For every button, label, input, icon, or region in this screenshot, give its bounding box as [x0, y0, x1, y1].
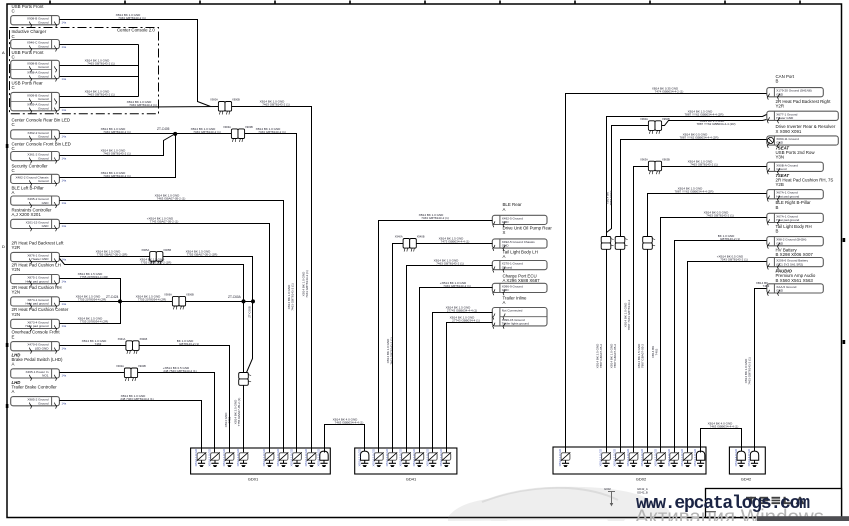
svg-text:Y2R: Y2R [776, 104, 785, 109]
svg-text:NO1: NO1 [42, 374, 49, 378]
svg-text:C: C [12, 168, 15, 173]
svg-text:(5C1 5Y2 5A1 5R2): (5C1 5Y2 5A1 5R2) [776, 262, 803, 266]
wire U20 charge port to GD41 [420, 288, 493, 449]
svg-text:XB14 4.0 GD: XB14 4.0 GD [734, 448, 738, 467]
svg-text:C: C [12, 9, 15, 14]
connector X932 inline [116, 364, 146, 381]
svg-text:C: C [12, 85, 15, 90]
svg-text:XB14 1.0 GD: XB14 1.0 GD [613, 448, 617, 467]
component U11 2R Heat Pad Cushion LH X875 [12, 262, 61, 272]
svg-text:Center Console Front Bin LED: Center Console Front Bin LED [12, 141, 71, 146]
svg-text:X905A: X905A [141, 248, 149, 252]
svg-text:14a: 14a [62, 402, 67, 406]
svg-text:X903A: X903A [223, 125, 231, 129]
svg-text:7463 GBT8143-2 (1): 7463 GBT8143-2 (1) [421, 216, 449, 220]
wire U7 security controller up to ZT-C405 [60, 134, 176, 178]
svg-text:14a: 14a [62, 135, 67, 139]
ground terminal GD02-2 [599, 448, 611, 467]
svg-text:7463 GBT8143-2 (1): 7463 GBT8143-2 (1) [258, 130, 286, 134]
svg-text:A: A [503, 254, 506, 259]
svg-text:XB14 1.0 GD: XB14 1.0 GD [262, 448, 266, 467]
svg-text:GND: GND [502, 244, 510, 248]
ground terminal GD41-5 [412, 448, 424, 467]
wire U5 CC rear bin LED to junction ZT-C405 [60, 133, 233, 135]
svg-text:USB Ports Rear: USB Ports Rear [12, 81, 44, 86]
svg-text:7463 GBT8143-2 (1): 7463 GBT8143-2 (1) [690, 162, 718, 166]
ground stake G002 [604, 487, 615, 506]
svg-text:Center Console 2.0: Center Console 2.0 [117, 28, 155, 33]
ground terminal GD01-6 [276, 448, 288, 467]
wire U9 restraints to GD01 [60, 224, 270, 449]
connector X900 inline [210, 98, 240, 115]
svg-text:7755 GBA07-05-2 (1): 7755 GBA07-05-2 (1) [237, 398, 241, 427]
wire U21 trailer inline w2 [447, 323, 493, 449]
wire U1 ground to GD01 via bundle [60, 20, 211, 107]
wire U28 tail light RH to GD02 [675, 241, 767, 449]
svg-text:7887 YY62 GBB034-4-4 (2R): 7887 YY62 GBB034-4-4 (2R) [675, 190, 714, 194]
component U5 Center Console Rear Bin LED X362 [12, 117, 71, 127]
svg-text:Ground: Ground [38, 97, 49, 101]
svg-text:XB14 1.0 GD: XB14 1.0 GD [654, 448, 658, 467]
ground terminal GD01-7 [290, 448, 302, 467]
svg-text:Trailer Inline: Trailer Inline [503, 296, 528, 301]
wire U3 USB front row2 [60, 77, 139, 97]
svg-text:Trailer lights ground: Trailer lights ground [502, 322, 530, 326]
connector X905 inline [141, 248, 171, 265]
ground terminal GD02-6 [654, 448, 666, 467]
svg-text:Inductive Charger: Inductive Charger [12, 29, 47, 34]
svg-text:7463 GBT8143-2 (1): 7463 GBT8143-2 (1) [193, 130, 221, 134]
component U21 Trailer Inline X096b [503, 296, 528, 306]
component U23 2R Heat Pad Backrest Right X677 [776, 99, 832, 109]
component U4 USB Ports Rear X909 [12, 81, 44, 91]
svg-text:E: E [12, 334, 15, 339]
svg-text:XB14 1.0 GD: XB14 1.0 GD [317, 448, 321, 467]
svg-text:27743 GBB034-4 (1): 27743 GBB034-4 (1) [452, 318, 480, 322]
svg-text:GD02: GD02 [636, 477, 647, 482]
svg-text:C: C [12, 34, 15, 39]
svg-text:X940B: X940B [417, 235, 425, 239]
svg-text:GND: GND [776, 92, 784, 96]
component U24 Drive Inverter Rear and Resolver X090 [776, 124, 836, 134]
component U17 BLE Rear X492 [503, 202, 523, 212]
svg-text:7463 GBB034-4-4 (1): 7463 GBB034-4-4 (1) [335, 420, 364, 424]
component U20 Charge Port ECU X096 [503, 274, 541, 284]
svg-text:X900B: X900B [232, 98, 240, 102]
svg-text:ZT-C60B: ZT-C60B [248, 306, 252, 318]
svg-text:14a: 14a [62, 257, 67, 261]
svg-text:7755 2078034-4 (2R): 7755 2078034-4 (2R) [78, 298, 107, 302]
svg-text:B: B [776, 205, 779, 210]
svg-text:7463 GBT8143-2 (1): 7463 GBT8143-2 (1) [443, 284, 471, 288]
connector X940 inline [395, 235, 425, 252]
svg-text:14a: 14a [62, 224, 67, 228]
wire U24 drive inverter to GD02 [621, 140, 767, 449]
component U10 2R Heat Pad Backrest Left X876 [12, 240, 65, 250]
svg-text:GBT8143-2 (1): GBT8143-2 (1) [720, 237, 740, 241]
svg-text:B X298 X006 X007: B X298 X006 X007 [776, 252, 814, 257]
svg-text:XB14 1.0 GD: XB14 1.0 GD [412, 448, 416, 467]
svg-text:X963B: X963B [662, 157, 670, 161]
svg-text:14a: 14a [62, 324, 67, 328]
svg-text:Ground: Ground [38, 135, 49, 139]
svg-text:7543 GBT8143-2 (1): 7543 GBT8143-2 (1) [720, 258, 748, 262]
svg-text:X900A: X900A [210, 98, 218, 102]
wire U3 USB front row1 [60, 65, 139, 67]
component U6 Center Console Front Bin LED X361 [12, 141, 71, 151]
svg-text:X963A: X963A [640, 157, 648, 161]
wire heat pad bundle down to GD01 with connector [243, 302, 245, 449]
svg-text:14a: 14a [62, 374, 67, 378]
svg-text:XB14 1.0 GD: XB14 1.0 GD [640, 448, 644, 467]
component U27 BLE Right B-Pillar X67A2 [776, 200, 812, 210]
svg-text:XB14 1.0 GD: XB14 1.0 GD [599, 448, 603, 467]
svg-text:7463 GBT8143-2 (1): 7463 GBT8143-2 (1) [436, 261, 464, 265]
svg-text:XB14 1.0 GD: XB14 1.0 GD [304, 448, 308, 467]
svg-text:X931A: X931A [118, 337, 126, 341]
wire U30 premium amp to GD42 [755, 289, 767, 449]
component U1 USB Ports Front X908 [12, 4, 45, 14]
svg-text:Heat pad ground: Heat pad ground [25, 302, 48, 306]
svg-text:X903B: X903B [245, 125, 253, 129]
svg-text:14a: 14a [62, 302, 67, 306]
svg-text:XB14 1.0 GD: XB14 1.0 GD [626, 448, 630, 467]
component U12 2R Heat Pad Cushion RH X874 [12, 285, 62, 295]
svg-text:2R Heat Pad Cushion RH, 7S: 2R Heat Pad Cushion RH, 7S [776, 177, 834, 182]
ground terminal GD02-5 [640, 448, 652, 467]
svg-text:X932A: X932A [116, 364, 124, 368]
svg-text:7887 YY62 GBB034-4-4 (2R): 7887 YY62 GBB034-4-4 (2R) [680, 136, 719, 140]
svg-text:7463 GBB034-4-4 (1): 7463 GBB034-4-4 (1) [710, 424, 739, 428]
connector X963 inline [640, 157, 670, 174]
wire U8 BLE left to GD01 [60, 201, 284, 449]
svg-text:A,J X200 X201: A,J X200 X201 [12, 212, 42, 217]
ground terminal GD42-1 [734, 448, 746, 467]
wire U26 cushion RH 7S to GD02 [648, 194, 767, 449]
svg-text:7473 GBB034-4-4 (1): 7473 GBB034-4-4 (1) [441, 240, 470, 244]
svg-text:Heat pad ground: Heat pad ground [25, 324, 48, 328]
svg-text:14a: 14a [62, 179, 67, 183]
svg-text:7463 GBT8143-2 (1): 7463 GBT8143-2 (1) [87, 61, 115, 65]
wire label vertical for USB bundle bus [302, 270, 310, 298]
svg-text:GND: GND [776, 241, 784, 245]
wire jumper GD01 to GD41 [325, 425, 365, 453]
ground terminal GD01-3 [222, 448, 234, 467]
svg-text:7755 2078034-4 (2R): 7755 2078034-4 (2R) [138, 298, 167, 302]
wire U14 overhead console to GD01 [60, 345, 126, 347]
wire U17 BLE rear to GD41 [379, 221, 493, 449]
connector X964 inline vertical [643, 237, 655, 250]
svg-text:7463 GBT8143-2 (1): 7463 GBT8143-2 (1) [103, 130, 131, 134]
group box Center Console 2.0 [10, 28, 159, 114]
svg-text:Overhead Console Front: Overhead Console Front [12, 330, 61, 335]
svg-text:X X090 X091: X X090 X091 [776, 129, 802, 134]
svg-text:B X560 X561 X563: B X560 X561 X563 [776, 278, 814, 283]
svg-text:7463 GBT8143-2 (1): 7463 GBT8143-2 (1) [291, 283, 295, 311]
svg-text:A: A [12, 362, 15, 367]
svg-text:7887 YY62 GBB034-4-4 (2R): 7887 YY62 GBB034-4-4 (2R) [685, 112, 724, 116]
taskbar fragment [757, 516, 849, 521]
ground terminal GD41-2 [371, 448, 383, 467]
svg-text:Tail Light Body RH: Tail Light Body RH [776, 224, 812, 229]
svg-text:7463 GBT8143-2 (1): 7463 GBT8143-2 (1) [129, 103, 157, 107]
component U14 Overhead Console Front X470 [12, 330, 61, 340]
svg-text:XB14 1.0 GD: XB14 1.0 GD [371, 448, 375, 467]
svg-text:X: X [503, 230, 506, 235]
wire U23 backrest right w2 [607, 120, 767, 233]
svg-text:14a: 14a [62, 201, 67, 205]
svg-text:XB14 1.0 GD: XB14 1.0 GD [276, 448, 280, 467]
svg-text:7474 GBB034-4-2 (1): 7474 GBB034-4-2 (1) [655, 90, 684, 94]
svg-text:B: B [776, 229, 779, 234]
svg-text:GND: GND [776, 141, 784, 145]
svg-text:Ground: Ground [38, 44, 49, 48]
svg-text:XB14 1.0 GD: XB14 1.0 GD [558, 448, 562, 467]
svg-text:7743 GBA07-05-2 (1): 7743 GBA07-05-2 (1) [150, 220, 179, 224]
svg-text:GND: GND [502, 288, 510, 292]
component U19 Tail Light Body LH X270 [503, 250, 538, 260]
node ZT-C60B tag [248, 306, 252, 318]
wire ZT-C405 bundle to GD01 [245, 134, 297, 449]
svg-text:7463: 7463 [95, 342, 102, 346]
svg-text:7463 GBT8143-2 (1): 7463 GBT8143-2 (1) [103, 152, 131, 156]
svg-text:7463 GBT8143-2 (1): 7463 GBT8143-2 (1) [262, 103, 290, 107]
wire U4 USB rear row1 [60, 96, 139, 98]
svg-text:14a: 14a [62, 77, 67, 81]
ground terminal GD01-5 [262, 448, 274, 467]
svg-text:XB14 1.0 GD: XB14 1.0 GD [208, 448, 212, 467]
svg-text:A X296 X688 X687: A X296 X688 X687 [503, 278, 541, 283]
svg-text:248 7463 GBT8143-2 (1): 248 7463 GBT8143-2 (1) [120, 397, 153, 401]
svg-text:A: A [12, 190, 15, 195]
svg-text:XB14 1.0 GD: XB14 1.0 GD [194, 448, 198, 467]
svg-text:14a: 14a [62, 20, 67, 24]
svg-text:X932B: X932B [138, 364, 146, 368]
wire U4 USB rear row2 main bundle out [60, 107, 219, 108]
wire U10 heat pad backrest left w1 [60, 256, 150, 258]
svg-text:Ground: Ground [502, 265, 513, 269]
svg-text:GD41: GD41 [406, 477, 417, 482]
svg-text:7887 GBA07-05-2: 7887 GBA07-05-2 [599, 344, 603, 369]
component U18 Drive Unit Oil Pump Rear X492b [503, 225, 553, 235]
wire U2 inductive charger ground [60, 44, 139, 46]
ground terminal GD02-1 [558, 448, 570, 467]
svg-text:Ground: Ground [38, 65, 49, 69]
ground terminal GD02-7 [667, 448, 679, 467]
logo TESLA [746, 497, 804, 504]
ground block GD01 [191, 448, 331, 482]
component U16 Trailer Brake Controller X985 [12, 380, 58, 394]
svg-text:GND: GND [42, 201, 50, 205]
faint car watermark [448, 487, 670, 525]
svg-text:XB14 1.0 GD: XB14 1.0 GD [439, 448, 443, 467]
wire label vertical for ZT-C405 bus [287, 283, 295, 311]
svg-text:www.epcatalogs.com: www.epcatalogs.com [636, 494, 810, 514]
svg-text:14a: 14a [62, 45, 67, 49]
component U2 Inductive Charger X946 [12, 29, 47, 39]
svg-text:A: A [12, 389, 15, 394]
svg-text:Ground: Ground [38, 74, 49, 78]
svg-text:ZT-C405: ZT-C405 [157, 127, 170, 131]
node GD42_A GD42_B [637, 487, 648, 495]
ground terminal GD01-2 [208, 448, 220, 467]
wire U13 cushion center up to ZT-C424 [60, 302, 121, 324]
wire U23 backrest right w1 [607, 115, 767, 233]
wire U10 heat pad backrest left w2 [60, 259, 244, 302]
svg-text:7463 GBA07-05-2 (1): 7463 GBA07-05-2 (1) [157, 196, 186, 200]
svg-text:XB14 1.0 GD: XB14 1.0 GD [290, 448, 294, 467]
svg-text:Drive Unit Oil Pump Rear: Drive Unit Oil Pump Rear [503, 225, 553, 230]
svg-text:14a: 14a [62, 108, 67, 112]
svg-text:Y3N: Y3N [776, 155, 785, 160]
svg-text:7463: 7463 [763, 284, 770, 288]
svg-text:14a: 14a [62, 347, 67, 351]
svg-text:Ground: Ground [38, 179, 49, 183]
wire backrest right bundle down [606, 233, 608, 449]
wire U16 trailer brake to GD01 [60, 401, 202, 449]
wire U15 brake pedal to GD01 [60, 372, 125, 374]
connector X960 inline [640, 117, 670, 134]
svg-text:2R Heat Pad Cushion Center: 2R Heat Pad Cushion Center [12, 307, 69, 312]
svg-text:XB14 1.0 GD: XB14 1.0 GD [222, 448, 226, 467]
svg-text:Y2R: Y2R [12, 245, 21, 250]
svg-text:Y2N: Y2N [12, 267, 21, 272]
svg-text:7463 GBT8143-2 (1): 7463 GBT8143-2 (1) [748, 357, 752, 385]
svg-text:C: C [12, 122, 15, 127]
wire U11 cushion LH down to junction ZT-C424 [60, 279, 121, 302]
svg-text:7887 YY62 GBB034-4-4 (2R): 7887 YY62 GBB034-4-4 (2R) [697, 122, 736, 126]
svg-text:A: A [503, 207, 506, 212]
svg-text:7755 GBA07-05-2 (1R): 7755 GBA07-05-2 (1R) [97, 253, 128, 257]
ground terminal GD02-9 [693, 448, 705, 467]
connector X907 inline vertical [239, 373, 251, 386]
svg-text:X905B: X905B [163, 248, 171, 252]
wire U12 cushion RH through ZT-C424 to heat bundle junctions [60, 301, 253, 303]
svg-text:XB14 1.0 GD: XB14 1.0 GD [693, 448, 697, 467]
svg-text:LED GND: LED GND [35, 346, 50, 350]
svg-text:GD01: GD01 [248, 477, 259, 482]
component U15 Brake Pedal Switch X465 [12, 352, 64, 366]
svg-text:Ground: Ground [776, 167, 787, 171]
wire U6 CC front bin LED up to ZT-C405 [60, 134, 176, 156]
svg-text:XB14 4.0 GD: XB14 4.0 GD [747, 448, 751, 467]
ground terminal GD41-1 [357, 448, 369, 467]
svg-text:Ground: Ground [38, 401, 49, 405]
wire U19 tail light LH to GD41 [407, 266, 493, 449]
svg-text:7755 2078034-4 (2R): 7755 2078034-4 (2R) [80, 320, 109, 324]
svg-text:X906B: X906B [186, 293, 194, 297]
svg-text:X906A: X906A [164, 293, 172, 297]
connector X961 inline vertical [601, 237, 613, 250]
component U9 Restraints Controller X201 [12, 207, 53, 217]
svg-text:7887 7463 GBT8143-2: 7887 7463 GBT8143-2 [627, 299, 631, 330]
ground terminal GD41-7 [439, 448, 451, 467]
wire U25 usb 2nd row to GD02 [662, 166, 767, 168]
svg-text:7755 GBA07-05-2 (1R): 7755 GBA07-05-2 (1R) [141, 261, 172, 265]
junction ZT-C405 [157, 127, 177, 136]
svg-text:GBT8143-2 (1): GBT8143-2 (1) [179, 342, 199, 346]
svg-text:Ground: Ground [38, 106, 49, 110]
ground terminal GD01-8 [304, 448, 316, 467]
svg-text:XB14 1.0 GD: XB14 1.0 GD [236, 448, 240, 467]
svg-text:D: D [2, 244, 5, 249]
connector X903 inline [223, 125, 253, 142]
svg-text:Not Connected: Not Connected [502, 309, 523, 313]
wire console bundle vertical [138, 45, 140, 97]
svg-text:Heat pad ground: Heat pad ground [25, 279, 48, 283]
component U22 CAN Port X179 [776, 74, 795, 84]
junction ZT-C424 [106, 295, 122, 304]
ground terminal GD02-4 [626, 448, 638, 467]
component U29 HV Battery X206 [776, 248, 814, 258]
svg-text:X960A: X960A [640, 117, 648, 121]
svg-text:BLE Right B-Pillar: BLE Right B-Pillar [776, 200, 812, 205]
svg-text:7463 GBT8143-2 (1): 7463 GBT8143-2 (1) [118, 16, 146, 20]
svg-text:Ground: Ground [38, 156, 49, 160]
svg-text:7755 2078034-4 (2R): 7755 2078034-4 (2R) [80, 275, 109, 279]
wire U21 trailer inline w1 [433, 313, 493, 449]
component U8 BLE Left B-Pillar X495 [12, 185, 45, 195]
junction ZT-C60A [228, 295, 255, 304]
title block [706, 489, 842, 518]
svg-text:7463 GBT8143-2 (1): 7463 GBT8143-2 (1) [103, 174, 131, 178]
ground block GD41 [355, 448, 457, 482]
svg-text:A: A [2, 50, 5, 55]
component U3 USB Ports Front X908 (dual) [12, 50, 45, 60]
wire U18 oil pump to GD41 [417, 243, 493, 245]
wire U22 CAN port to GD02 [566, 94, 767, 449]
svg-text:USB Ports Front: USB Ports Front [12, 4, 45, 9]
svg-text:XB14 1.0 GD: XB14 1.0 GD [399, 448, 403, 467]
connector X931 inline [118, 337, 148, 354]
component U26 2R Heat Pad Cushion RH 7S X67A [776, 173, 834, 187]
svg-text:C: C [12, 54, 15, 59]
svg-text:XB14 1.0 GD: XB14 1.0 GD [667, 448, 671, 467]
svg-text:7463 GBT8143-2 (1): 7463 GBT8143-2 (1) [87, 93, 115, 97]
svg-text:Center Console Rear Bin LED: Center Console Rear Bin LED [12, 117, 71, 122]
component U25 USB Ports 2nd Row X90B [776, 145, 816, 159]
svg-text:ZT-C60A: ZT-C60A [228, 295, 242, 299]
ground terminal GD41-6 [425, 448, 437, 467]
svg-text:XB14 1.0 GD: XB14 1.0 GD [680, 448, 684, 467]
ground terminal GD41-3 [385, 448, 397, 467]
connector X962 inline vertical [615, 237, 627, 250]
svg-text:X960B: X960B [662, 117, 670, 121]
component U13 2R Heat Pad Cushion Center X873 [12, 307, 69, 317]
component U28 Tail Light Body RH X98 [776, 224, 812, 234]
svg-text:27743 GBB034-4-4 (1): 27743 GBB034-4-4 (1) [447, 309, 477, 313]
svg-text:Ground: Ground [38, 20, 49, 24]
svg-text:GND: GND [776, 289, 784, 293]
ground block GD42 [729, 447, 765, 482]
svg-text:ZT-C424: ZT-C424 [106, 295, 119, 299]
ground terminal GD02-3 [613, 448, 625, 467]
svg-text:Y2N: Y2N [12, 312, 21, 317]
svg-text:14a: 14a [62, 156, 67, 160]
svg-text:XB14 1.0 GD: XB14 1.0 GD [357, 448, 361, 467]
svg-text:248 7543 GBT8143-2 (1): 248 7543 GBT8143-2 (1) [163, 369, 196, 373]
svg-text:C: C [12, 146, 15, 151]
svg-text:Y2B: Y2B [776, 182, 784, 187]
wire U29 HV battery to GD02 [688, 262, 767, 449]
ground terminal GD01-4 [236, 448, 248, 467]
svg-text:14a: 14a [62, 279, 67, 283]
svg-text:7755 GBA07-05-2 (1R): 7755 GBA07-05-2 (1R) [187, 253, 218, 257]
ground terminal GD01-9 [317, 448, 329, 467]
svg-text:Heater GND: Heater GND [31, 257, 49, 261]
svg-text:GND: GND [502, 220, 510, 224]
ground terminal GD02-8 [680, 448, 692, 467]
